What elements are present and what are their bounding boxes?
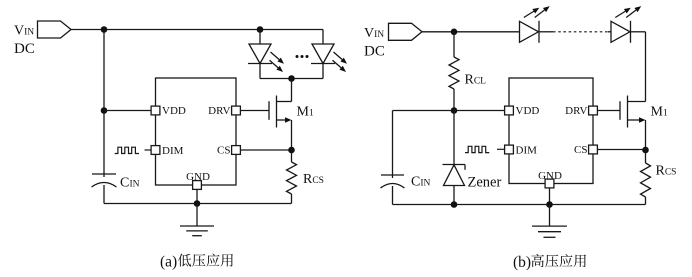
svg-text:M1: M1	[651, 105, 668, 120]
svg-text:CIN: CIN	[411, 175, 431, 190]
svg-text:VIN: VIN	[14, 24, 34, 39]
svg-text:GND: GND	[186, 171, 210, 183]
svg-text:DRV: DRV	[565, 105, 587, 117]
svg-text:RCS: RCS	[303, 172, 324, 187]
svg-text:GND: GND	[538, 170, 562, 182]
svg-text:DC: DC	[364, 44, 385, 60]
svg-text:DRV: DRV	[208, 105, 230, 117]
svg-text:VDD: VDD	[516, 105, 540, 117]
svg-text:RCS: RCS	[656, 164, 677, 179]
svg-text:C: C	[120, 176, 129, 191]
svg-text:DC: DC	[14, 41, 35, 57]
svg-text:Zener: Zener	[468, 174, 502, 190]
svg-text:CS: CS	[217, 145, 230, 157]
svg-text:DIM: DIM	[162, 145, 184, 157]
svg-text:M1: M1	[297, 105, 314, 120]
svg-text:RCL: RCL	[465, 72, 487, 87]
svg-text:IN: IN	[130, 180, 140, 190]
svg-text:DIM: DIM	[516, 145, 538, 157]
svg-text:VDD: VDD	[162, 105, 186, 117]
svg-text:(a): (a)	[160, 254, 177, 271]
svg-text:(b): (b)	[513, 254, 531, 271]
svg-text:CS: CS	[574, 144, 587, 156]
svg-text:VIN: VIN	[364, 26, 384, 41]
